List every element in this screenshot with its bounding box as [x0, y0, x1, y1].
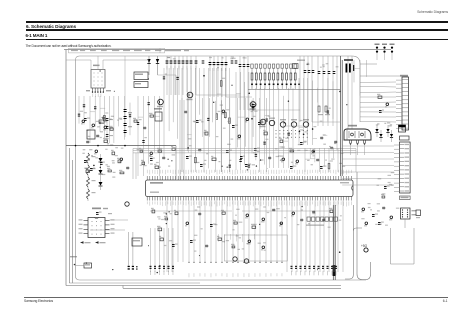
svg-text:+5G: +5G	[361, 244, 368, 248]
